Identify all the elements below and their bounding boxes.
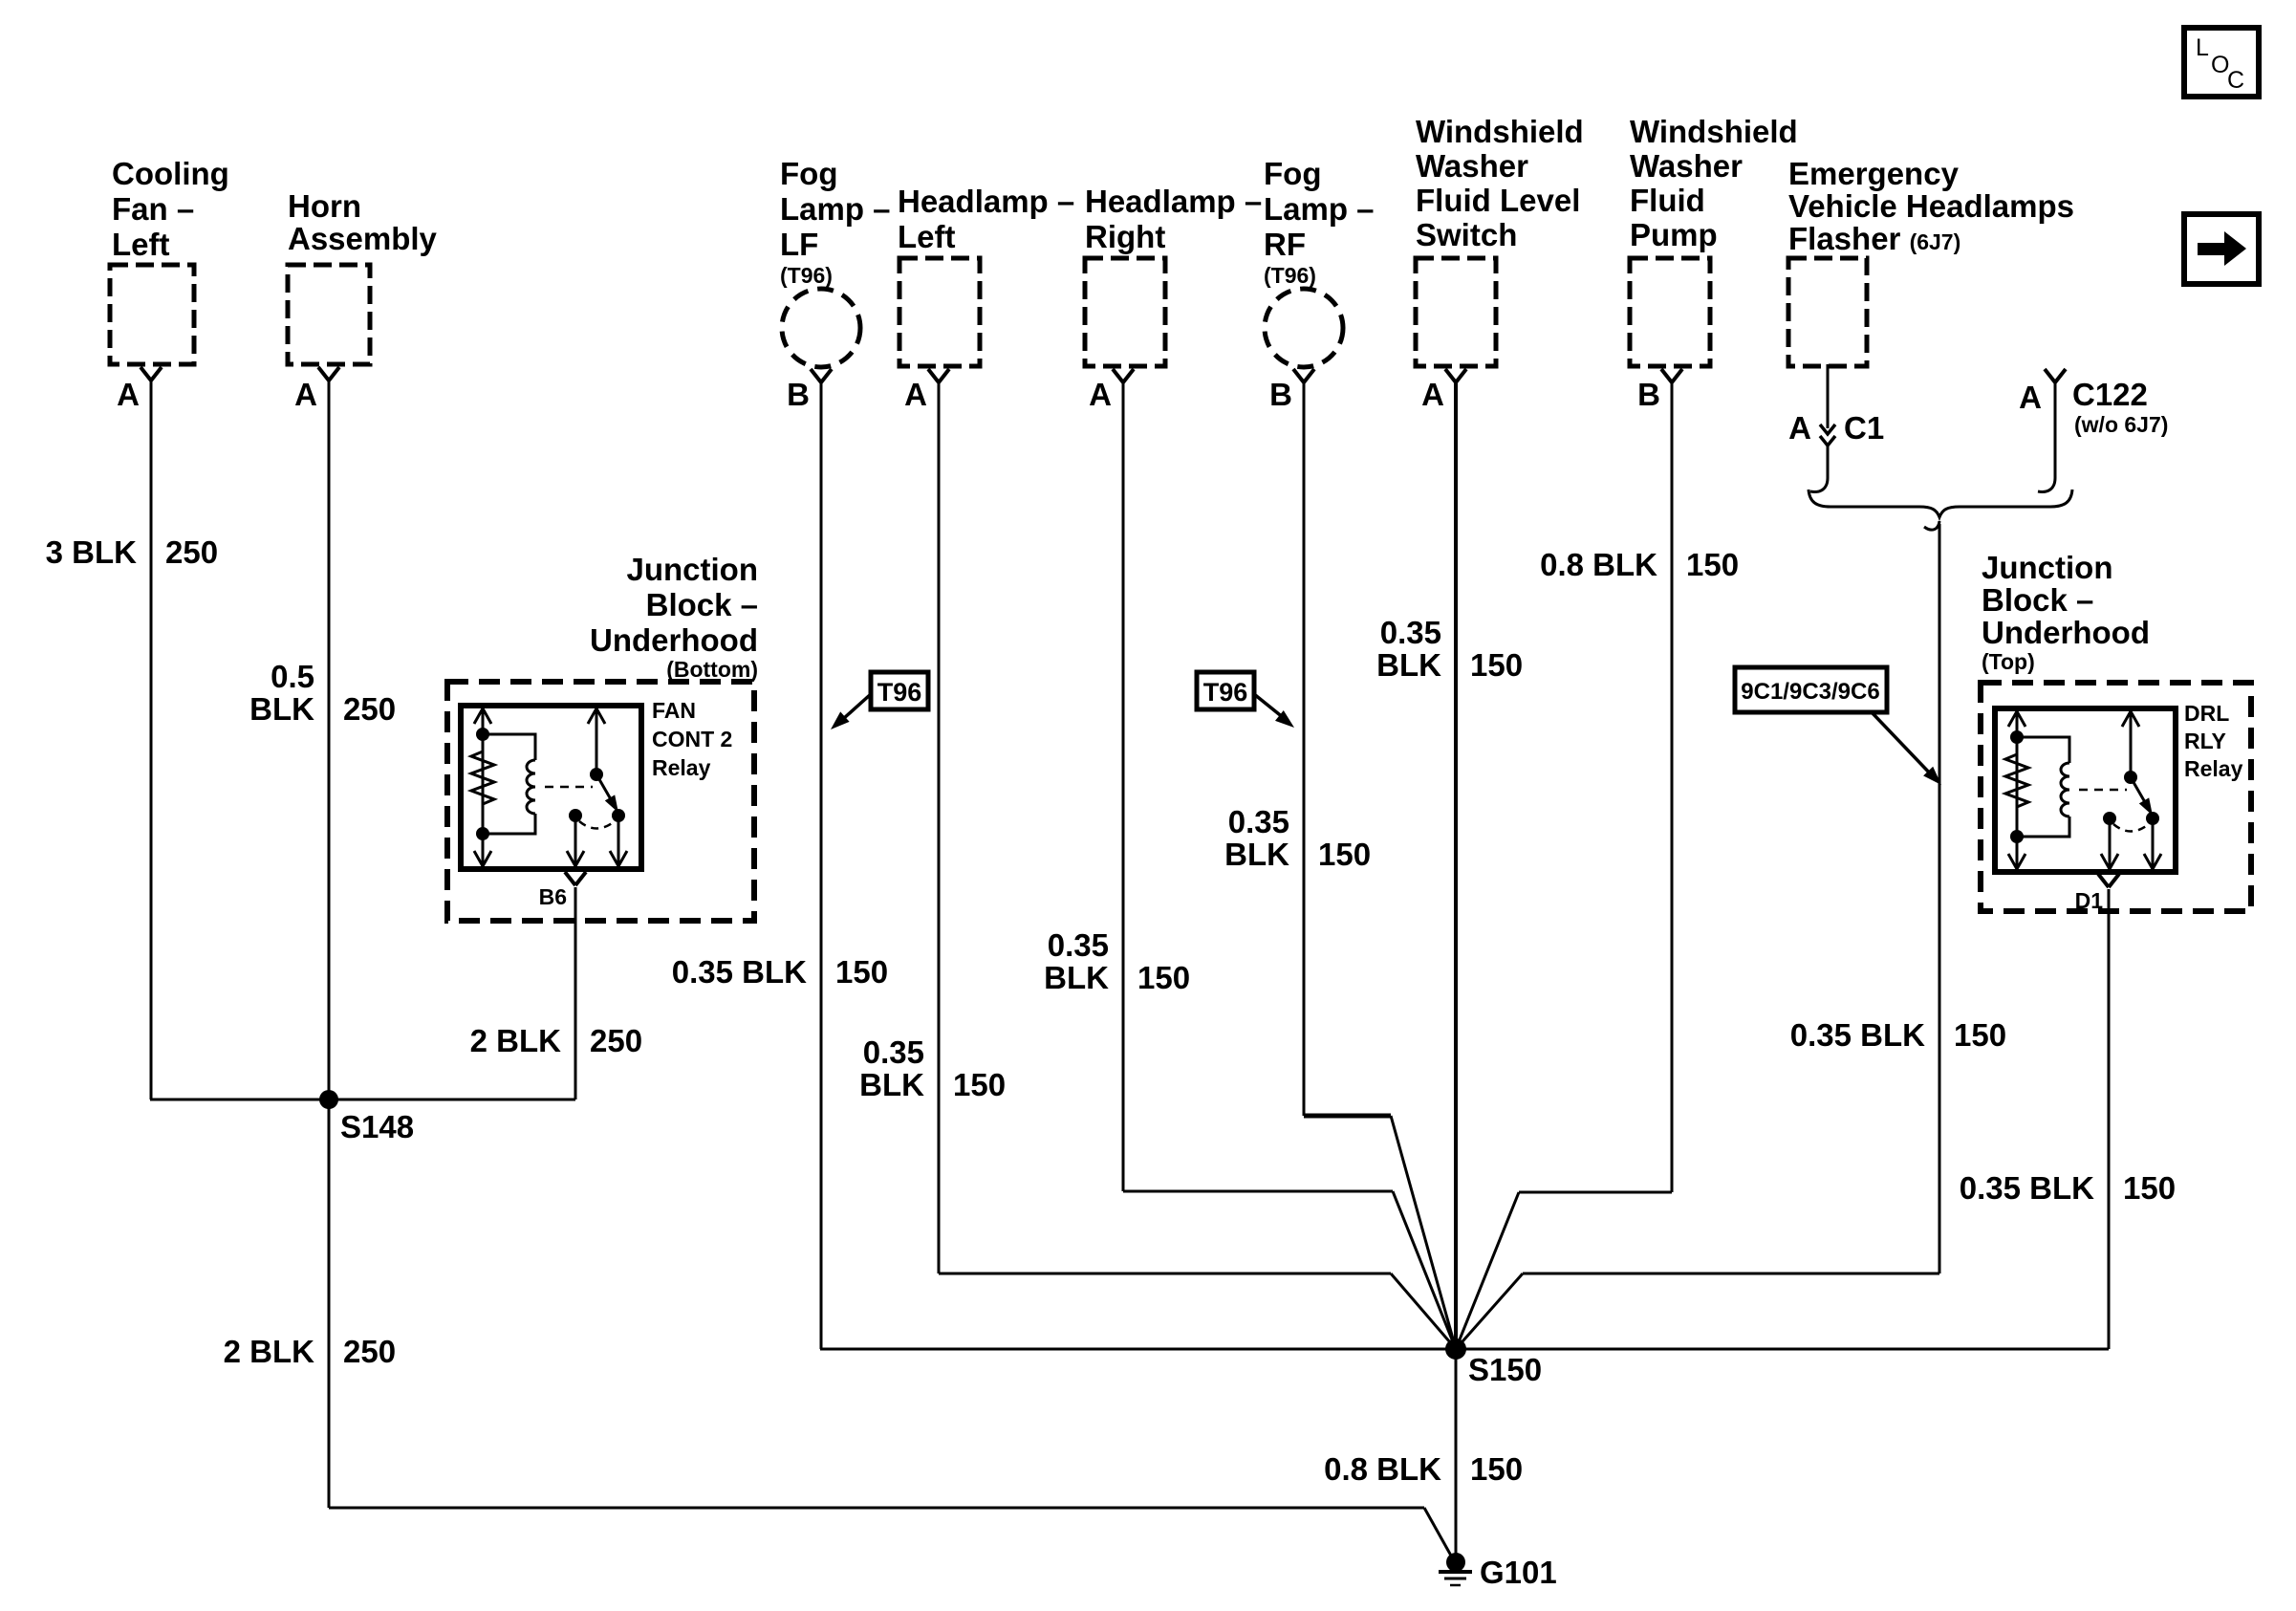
svg-text:2 BLK: 2 BLK <box>470 1023 562 1058</box>
svg-text:150: 150 <box>1470 1451 1523 1487</box>
svg-text:250: 250 <box>590 1023 642 1058</box>
svg-text:Fog: Fog <box>1264 156 1321 191</box>
svg-text:250: 250 <box>343 1334 396 1369</box>
svg-text:CONT 2: CONT 2 <box>652 727 732 751</box>
svg-text:0.35: 0.35 <box>1380 615 1441 650</box>
svg-text:FAN: FAN <box>652 698 696 723</box>
svg-text:(Top): (Top) <box>1982 649 2035 674</box>
svg-text:A: A <box>1788 410 1811 446</box>
svg-text:C1: C1 <box>1844 410 1884 446</box>
svg-text:Junction: Junction <box>627 552 759 587</box>
svg-text:BLK: BLK <box>1224 837 1289 872</box>
svg-text:(T96): (T96) <box>1264 263 1316 288</box>
svg-text:C122: C122 <box>2072 377 2148 412</box>
svg-text:Pump: Pump <box>1630 217 1718 252</box>
svg-text:Left: Left <box>898 219 956 254</box>
svg-text:BLK: BLK <box>249 691 314 727</box>
svg-text:0.8 BLK: 0.8 BLK <box>1324 1451 1441 1487</box>
svg-text:Underhood: Underhood <box>1982 615 2150 650</box>
svg-text:250: 250 <box>165 534 218 570</box>
svg-text:LF: LF <box>780 227 818 262</box>
svg-text:Washer: Washer <box>1630 148 1743 184</box>
svg-text:BLK: BLK <box>1376 647 1441 683</box>
svg-text:C: C <box>2227 67 2244 94</box>
svg-text:S150: S150 <box>1468 1352 1542 1387</box>
svg-text:L: L <box>2196 34 2209 61</box>
svg-text:Right: Right <box>1085 219 1165 254</box>
svg-text:DRL: DRL <box>2184 701 2229 726</box>
svg-text:Windshield: Windshield <box>1630 114 1798 149</box>
svg-text:Headlamp –: Headlamp – <box>898 184 1074 219</box>
svg-text:Assembly: Assembly <box>288 221 438 256</box>
svg-text:Lamp –: Lamp – <box>780 191 891 227</box>
svg-text:Lamp –: Lamp – <box>1264 191 1375 227</box>
svg-text:S148: S148 <box>340 1109 414 1144</box>
svg-text:RF: RF <box>1264 227 1306 262</box>
svg-text:B: B <box>1269 377 1292 412</box>
svg-text:A: A <box>2019 380 2042 415</box>
svg-text:Block –: Block – <box>646 587 758 622</box>
svg-text:150: 150 <box>1954 1017 2006 1053</box>
svg-text:0.35: 0.35 <box>1228 804 1289 839</box>
svg-text:Switch: Switch <box>1416 217 1517 252</box>
svg-text:BLK: BLK <box>859 1067 924 1102</box>
svg-text:150: 150 <box>1470 647 1523 683</box>
svg-text:G101: G101 <box>1480 1555 1557 1590</box>
svg-text:B: B <box>1637 377 1660 412</box>
svg-text:Left: Left <box>112 227 170 262</box>
svg-text:150: 150 <box>1137 960 1190 995</box>
svg-text:0.35: 0.35 <box>863 1034 924 1070</box>
svg-text:A: A <box>1089 377 1112 412</box>
svg-text:(w/o 6J7): (w/o 6J7) <box>2074 412 2168 437</box>
svg-text:(Bottom): (Bottom) <box>666 657 758 682</box>
svg-text:Horn: Horn <box>288 188 361 224</box>
svg-text:0.8 BLK: 0.8 BLK <box>1540 547 1657 582</box>
svg-text:0.5: 0.5 <box>271 659 314 694</box>
svg-text:0.35: 0.35 <box>1048 927 1109 963</box>
svg-text:150: 150 <box>835 954 888 990</box>
svg-text:Underhood: Underhood <box>590 622 758 658</box>
svg-text:Fog: Fog <box>780 156 837 191</box>
svg-text:3 BLK: 3 BLK <box>46 534 138 570</box>
svg-text:Headlamp –: Headlamp – <box>1085 184 1262 219</box>
svg-text:Emergency: Emergency <box>1788 156 1960 191</box>
svg-text:Fluid: Fluid <box>1630 183 1705 218</box>
svg-text:150: 150 <box>1318 837 1371 872</box>
svg-text:Vehicle Headlamps: Vehicle Headlamps <box>1788 188 2074 224</box>
svg-text:0.35 BLK: 0.35 BLK <box>672 954 807 990</box>
svg-text:Cooling: Cooling <box>112 156 229 191</box>
svg-text:2 BLK: 2 BLK <box>224 1334 315 1369</box>
svg-text:D1: D1 <box>2075 888 2104 913</box>
svg-text:Block –: Block – <box>1982 582 2093 618</box>
svg-text:Fluid Level: Fluid Level <box>1416 183 1580 218</box>
svg-text:0.35 BLK: 0.35 BLK <box>1960 1170 2094 1206</box>
svg-text:RLY: RLY <box>2184 729 2226 753</box>
svg-text:9C1/9C3/9C6: 9C1/9C3/9C6 <box>1741 679 1879 705</box>
svg-text:250: 250 <box>343 691 396 727</box>
svg-text:A: A <box>117 377 140 412</box>
svg-text:150: 150 <box>2123 1170 2176 1206</box>
svg-text:(T96): (T96) <box>780 263 833 288</box>
svg-text:A: A <box>1421 377 1444 412</box>
svg-text:Washer: Washer <box>1416 148 1528 184</box>
svg-text:Fan –: Fan – <box>112 191 194 227</box>
svg-text:BLK: BLK <box>1044 960 1109 995</box>
svg-text:T96: T96 <box>1203 678 1248 707</box>
svg-text:T96: T96 <box>877 678 922 707</box>
svg-text:A: A <box>904 377 927 412</box>
svg-text:Relay: Relay <box>652 755 711 780</box>
svg-text:B: B <box>787 377 810 412</box>
svg-text:B6: B6 <box>539 884 567 909</box>
svg-text:Junction: Junction <box>1982 550 2113 585</box>
svg-text:150: 150 <box>953 1067 1006 1102</box>
svg-text:Windshield: Windshield <box>1416 114 1584 149</box>
svg-text:Relay: Relay <box>2184 756 2243 781</box>
svg-text:150: 150 <box>1686 547 1739 582</box>
svg-text:0.35 BLK: 0.35 BLK <box>1790 1017 1925 1053</box>
svg-text:A: A <box>294 377 317 412</box>
